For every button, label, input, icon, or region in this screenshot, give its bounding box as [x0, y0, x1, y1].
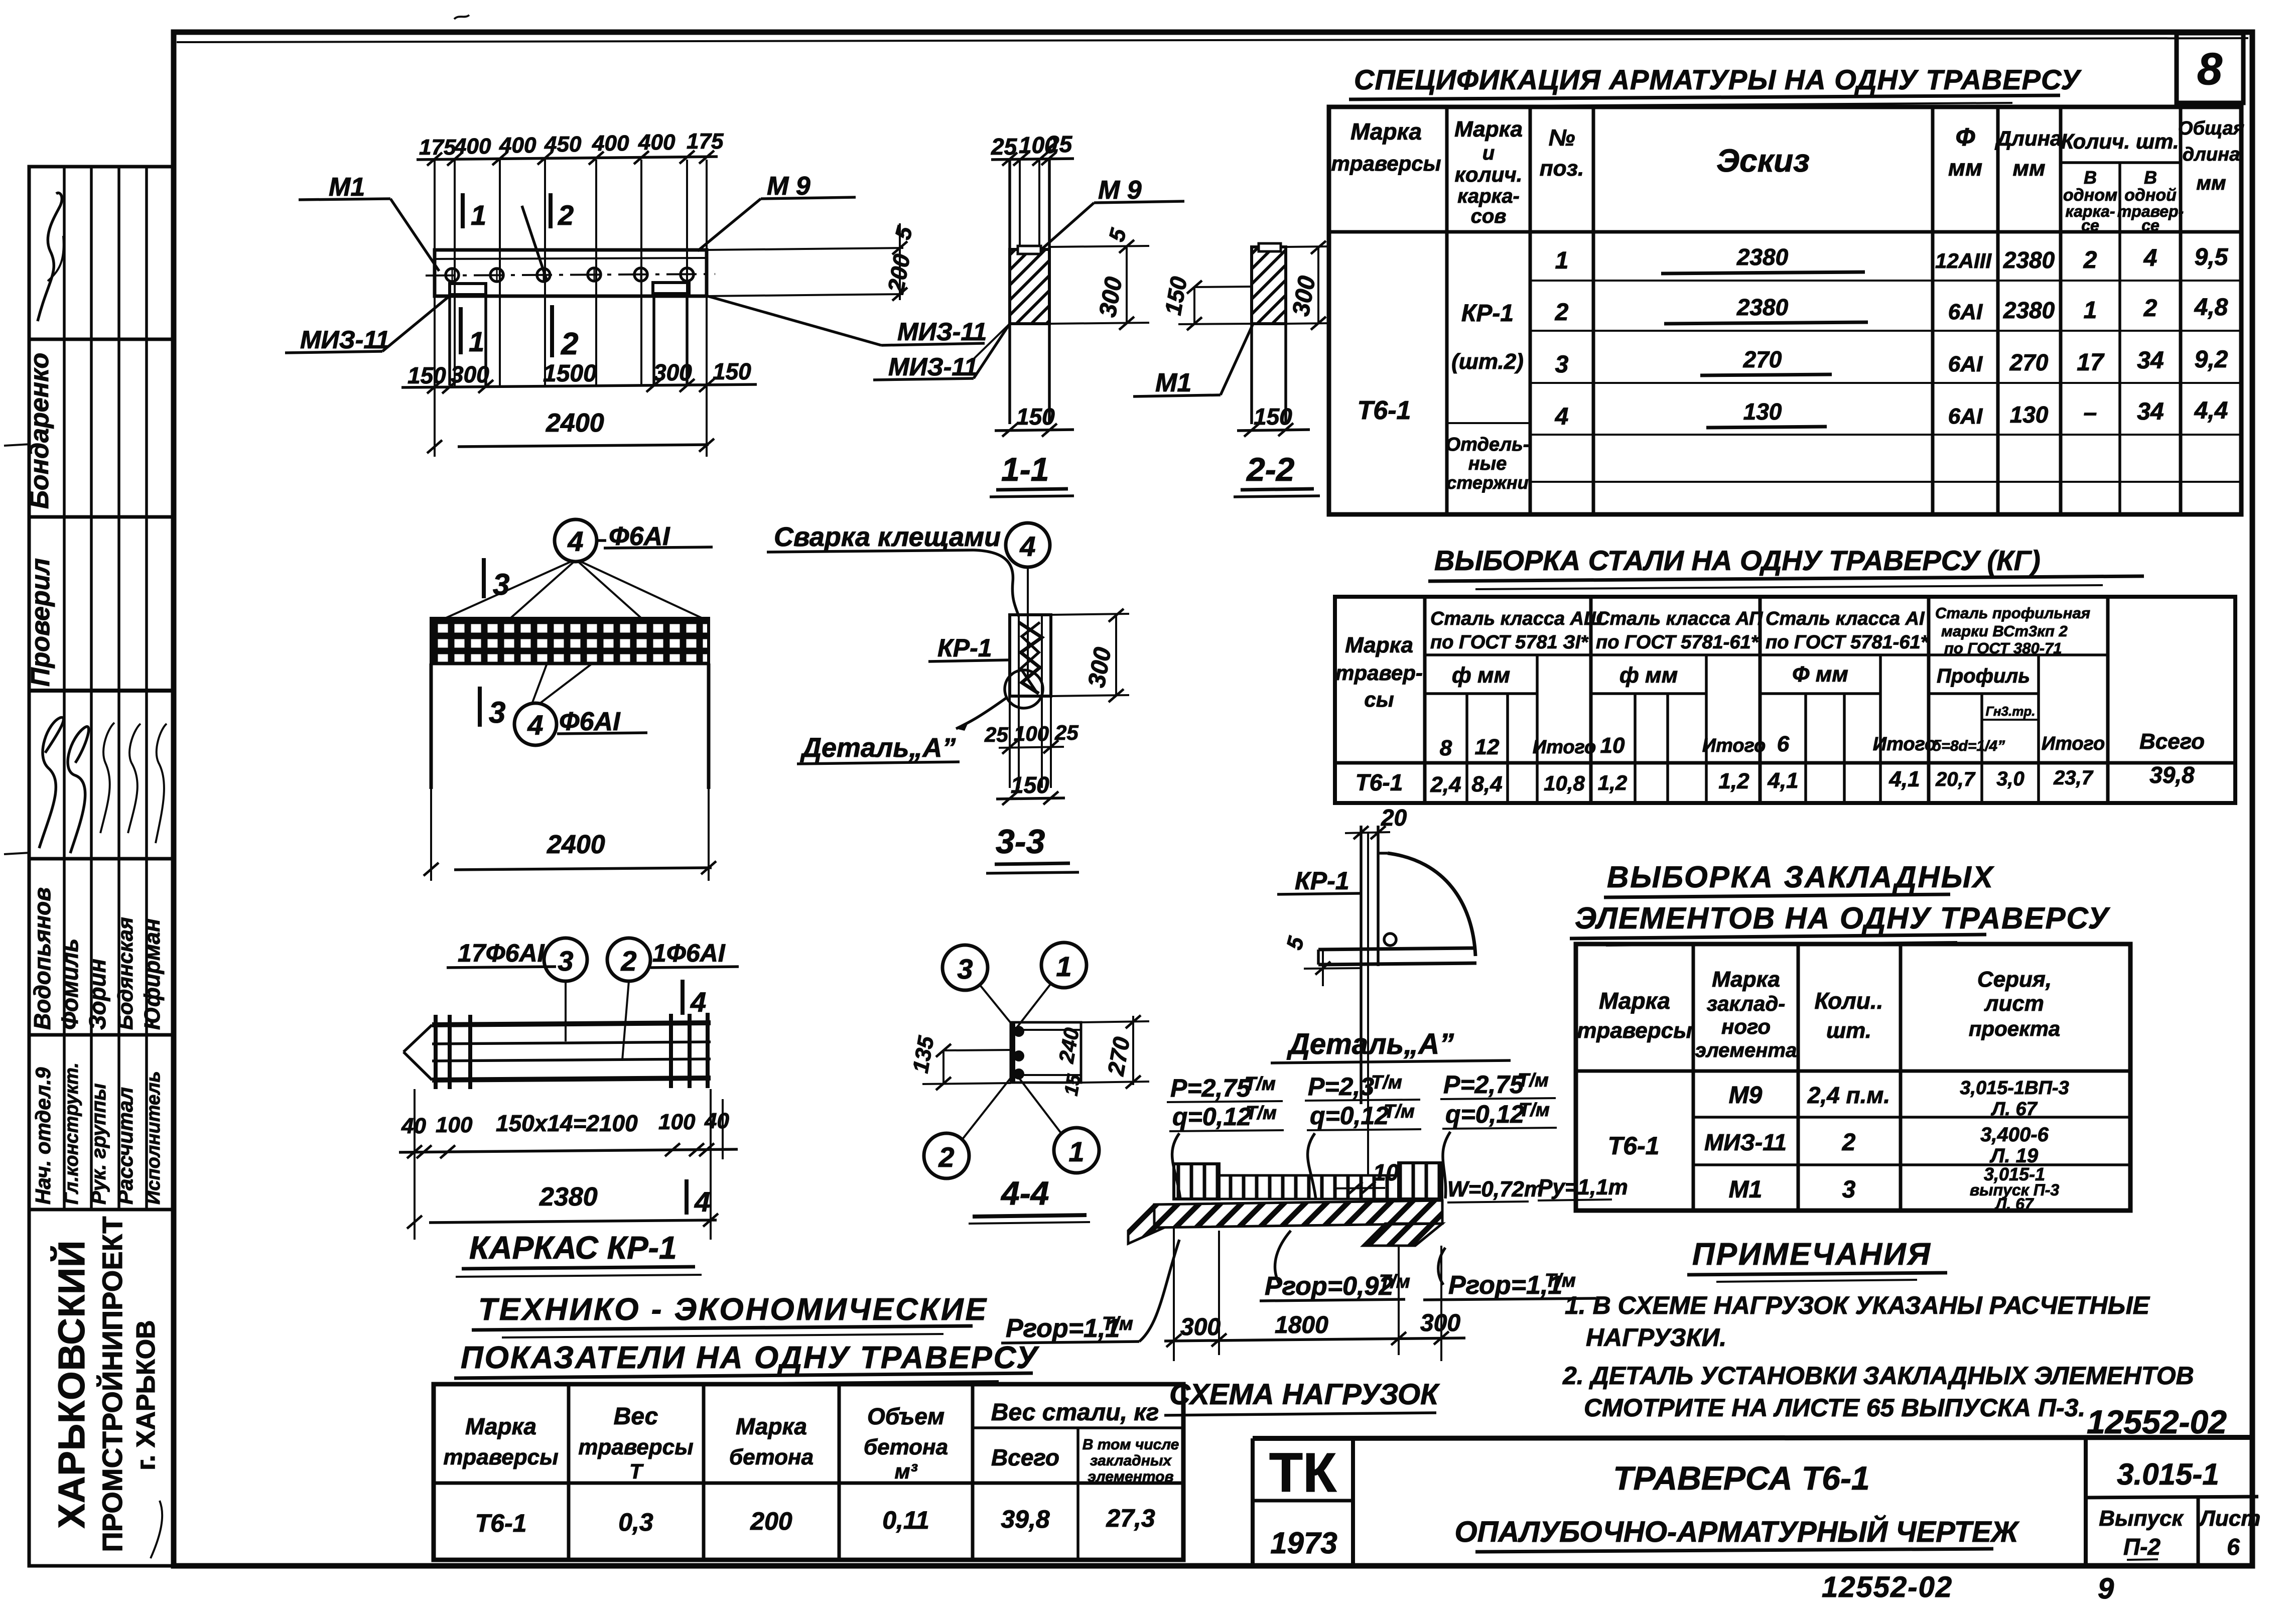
- svg-text:3: 3: [489, 696, 505, 729]
- svg-text:стержни: стержни: [1446, 472, 1528, 493]
- title block: [1253, 1437, 2260, 1566]
- svg-text:12552-02: 12552-02: [1822, 1571, 1953, 1602]
- svg-text:шт.: шт.: [1826, 1018, 1871, 1043]
- svg-text:27,3: 27,3: [1106, 1504, 1155, 1532]
- svg-text:М 9: М 9: [767, 172, 811, 201]
- svg-text:25: 25: [1046, 131, 1073, 157]
- svg-text:2: 2: [1555, 299, 1569, 326]
- svg-text:В: В: [2144, 167, 2157, 188]
- svg-text:8: 8: [1440, 736, 1452, 760]
- svg-text:9,2: 9,2: [2195, 346, 2228, 373]
- svg-text:1: 1: [469, 326, 484, 357]
- svg-text:100: 100: [658, 1110, 696, 1134]
- dim 270: [1082, 1021, 1149, 1022]
- svg-text:3: 3: [558, 945, 573, 977]
- svg-text:длина: длина: [2183, 144, 2240, 165]
- svg-text:q=0,12: q=0,12: [1310, 1102, 1389, 1130]
- svg-text:300: 300: [1420, 1310, 1460, 1336]
- svg-text:Отдель-: Отдель-: [1446, 434, 1530, 455]
- callout circle 3: [942, 945, 988, 990]
- svg-text:се: се: [2141, 216, 2159, 234]
- circle 2: [607, 938, 650, 981]
- svg-text:Гл.конструкт.: Гл.конструкт.: [61, 1062, 82, 1205]
- svg-text:2-2: 2-2: [1246, 451, 1295, 488]
- svg-text:П-2: П-2: [2123, 1534, 2160, 1560]
- svg-text:2400: 2400: [546, 409, 604, 438]
- svg-text:заклад-: заклад-: [1707, 992, 1786, 1015]
- svg-text:150: 150: [1254, 404, 1292, 430]
- middle distributed load: [1219, 1175, 1399, 1199]
- dim 300 right: [1286, 246, 1330, 247]
- hatched beam band: [1154, 1200, 1442, 1228]
- svg-text:25: 25: [984, 723, 1008, 746]
- embedded elements table: [1576, 944, 2130, 1213]
- svg-text:Т/м: Т/м: [1384, 1101, 1415, 1122]
- svg-text:по ГОСТ 5781 ЗІ*: по ГОСТ 5781 ЗІ*: [1430, 632, 1589, 653]
- svg-text:ТРАВЕРСА Т6-1: ТРАВЕРСА Т6-1: [1613, 1459, 1869, 1497]
- svg-text:КАРКАС КР-1: КАРКАС КР-1: [469, 1230, 677, 1266]
- svg-text:Нач. отдел.9: Нач. отдел.9: [31, 1067, 55, 1205]
- svg-text:4: 4: [1555, 404, 1569, 430]
- svg-text:Деталь„А”: Деталь„А”: [1286, 1028, 1454, 1060]
- svg-text:Л. 67: Л. 67: [1994, 1195, 2035, 1213]
- strip row lines: [29, 338, 173, 341]
- svg-text:Т/м: Т/м: [1102, 1313, 1133, 1334]
- circle leaders: [565, 981, 567, 1041]
- specification table title: [1349, 64, 2082, 106]
- svg-text:1: 1: [471, 199, 486, 231]
- svg-text:ЭЛЕМЕНТОВ НА ОДНУ ТРАВЕРСУ: ЭЛЕМЕНТОВ НА ОДНУ ТРАВЕРСУ: [1575, 901, 2111, 935]
- svg-text:Марка: Марка: [1454, 117, 1523, 142]
- svg-text:Т/м: Т/м: [1379, 1271, 1410, 1292]
- svg-text:0,3: 0,3: [618, 1508, 653, 1536]
- svg-text:Длина: Длина: [1995, 126, 2062, 150]
- svg-text:МИЗ-11: МИЗ-11: [300, 326, 389, 354]
- right cells: [2084, 1438, 2088, 1566]
- svg-text:39,8: 39,8: [1001, 1505, 1050, 1533]
- svg-text:Общая: Общая: [2178, 118, 2244, 139]
- svg-text:МИЗ-11: МИЗ-11: [897, 318, 987, 346]
- svg-text:10,8: 10,8: [1544, 771, 1585, 795]
- channel walls: [1008, 160, 1011, 424]
- svg-text:бетона: бетона: [729, 1445, 814, 1469]
- svg-text:4: 4: [527, 709, 543, 741]
- column lines: [1445, 107, 1449, 514]
- svg-text:Зорин: Зорин: [84, 959, 110, 1030]
- svg-text:34: 34: [2137, 347, 2164, 374]
- svg-text:М1: М1: [1155, 368, 1191, 397]
- svg-text:100: 100: [1014, 722, 1049, 745]
- svg-text:(шт.2): (шт.2): [1451, 349, 1524, 374]
- right load block: [1399, 1163, 1442, 1199]
- svg-text:3: 3: [1842, 1176, 1856, 1203]
- embedded plate marks on beam: [450, 284, 486, 295]
- svg-text:400: 400: [592, 131, 629, 156]
- section mark 2 bottom: [550, 305, 554, 357]
- svg-text:Т6-1: Т6-1: [1356, 769, 1403, 795]
- embedded elements table title: [1570, 860, 2111, 946]
- vertical plate: [1360, 826, 1363, 1104]
- svg-text:карка-: карка-: [1457, 185, 1520, 207]
- svg-text:100: 100: [436, 1113, 473, 1137]
- svg-text:400: 400: [638, 130, 676, 155]
- svg-text:г. ХАРЬКОВ: г. ХАРЬКОВ: [131, 1320, 161, 1470]
- section rectangle: [1011, 1022, 1081, 1083]
- svg-text:Л. 67: Л. 67: [1990, 1099, 2038, 1120]
- svg-text:150: 150: [1016, 404, 1055, 430]
- svg-text:ТЕХНИКО - ЭКОНОМИЧЕСКИЕ: ТЕХНИКО - ЭКОНОМИЧЕСКИЕ: [478, 1292, 988, 1327]
- extension lines down: [434, 251, 436, 457]
- svg-text:12АIII: 12АIII: [1935, 249, 1992, 273]
- svg-text:Водопьянов: Водопьянов: [29, 887, 55, 1030]
- svg-text:Вес стали, кг: Вес стали, кг: [991, 1399, 1159, 1426]
- plan view plates below: [448, 296, 451, 385]
- svg-text:2: 2: [558, 199, 574, 231]
- svg-text:300: 300: [451, 361, 489, 387]
- svg-text:1-1: 1-1: [1001, 451, 1049, 488]
- svg-text:1: 1: [1555, 247, 1569, 274]
- svg-text:проекта: проекта: [1969, 1017, 2060, 1040]
- svg-text:2: 2: [938, 1141, 954, 1173]
- svg-text:6АI: 6АI: [1948, 352, 1983, 376]
- svg-text:ВЫБОРКА СТАЛИ НА ОДНУ ТРАВ: ВЫБОРКА СТАЛИ НА ОДНУ ТРАВЕРСУ (КГ): [1434, 545, 2041, 576]
- svg-text:Профиль: Профиль: [1937, 665, 2030, 687]
- svg-text:1800: 1800: [1275, 1312, 1328, 1339]
- svg-text:Сталь профильная: Сталь профильная: [1935, 604, 2090, 622]
- svg-text:4: 4: [690, 986, 706, 1018]
- detail A circle: [1005, 670, 1043, 708]
- svg-text:Т6-1: Т6-1: [1358, 396, 1411, 425]
- mesh band: [431, 618, 709, 663]
- dim 300 right: [1051, 614, 1129, 615]
- svg-text:8,4: 8,4: [1471, 772, 1502, 796]
- svg-text:4-4: 4-4: [1000, 1174, 1049, 1212]
- svg-text:Рук. группы: Рук. группы: [88, 1084, 110, 1205]
- dim 2400 under mesh: [430, 789, 432, 881]
- beam rectangle: [435, 250, 707, 296]
- svg-text:270: 270: [1743, 346, 1782, 372]
- svg-text:мм: мм: [2012, 156, 2045, 181]
- TEP table title: [454, 1292, 1039, 1385]
- section 3-3 with svarka kleschami: [767, 522, 1129, 873]
- callout circle 1 top: [1041, 943, 1087, 988]
- svg-text:Юфирман: Юфирман: [140, 918, 165, 1030]
- svg-text:закладных: закладных: [1090, 1452, 1172, 1469]
- svg-text:150х14=2100: 150х14=2100: [496, 1110, 638, 1136]
- svg-text:сов: сов: [1471, 205, 1507, 227]
- svg-text:–: –: [2084, 399, 2097, 426]
- svg-text:Итого: Итого: [1533, 737, 1596, 758]
- svg-text:2380: 2380: [539, 1182, 598, 1212]
- body below mesh: [430, 663, 433, 789]
- header bands: [1425, 653, 2108, 656]
- svg-text:МИЗ-11: МИЗ-11: [888, 353, 978, 381]
- svg-text:q=0,12: q=0,12: [1445, 1100, 1524, 1128]
- svg-text:150: 150: [408, 362, 446, 388]
- svg-text:2. ДЕТАЛЬ УСТАНОВКИ ЗАКЛАДНЫ: 2. ДЕТАЛЬ УСТАНОВКИ ЗАКЛАДНЫХ ЭЛЕМЕНТОВ: [1562, 1362, 2194, 1390]
- svg-text:2400: 2400: [547, 830, 605, 859]
- steel selection table title: [1428, 545, 2144, 589]
- svg-text:ного: ного: [1721, 1015, 1771, 1038]
- svg-text:сы: сы: [1364, 688, 1394, 711]
- svg-text:МИЗ-11: МИЗ-11: [1704, 1129, 1787, 1155]
- leaders: [980, 985, 1015, 1028]
- svg-text:по ГОСТ 5781-61*: по ГОСТ 5781-61*: [1766, 632, 1929, 653]
- svg-text:2: 2: [1842, 1129, 1856, 1156]
- svg-text:Т/м: Т/м: [1245, 1074, 1276, 1095]
- row lines: [1530, 280, 2241, 282]
- svg-text:3,015-1ВП-3: 3,015-1ВП-3: [1960, 1078, 2069, 1099]
- svg-text:2380: 2380: [2003, 247, 2055, 273]
- circle 3: [544, 938, 587, 981]
- strip column lines: [63, 167, 66, 1210]
- svg-text:6АI: 6АI: [1948, 300, 1983, 324]
- svg-text:4,1: 4,1: [1767, 768, 1798, 793]
- specification table: [1329, 107, 2244, 514]
- svg-text:Коли..: Коли..: [1815, 988, 1883, 1014]
- svg-text:39,8: 39,8: [2149, 762, 2195, 788]
- svg-text:15: 15: [1061, 1073, 1086, 1098]
- svg-text:элемента: элемента: [1695, 1039, 1797, 1061]
- svg-text:Бодянская: Бодянская: [113, 917, 137, 1030]
- column outline: [1010, 615, 1051, 696]
- svg-text:лист: лист: [1984, 991, 2044, 1016]
- svg-text:Итого: Итого: [2042, 733, 2105, 754]
- svg-text:Марка: Марка: [1599, 988, 1670, 1014]
- svg-text:по ГОСТ 380-71: по ГОСТ 380-71: [1944, 639, 2062, 657]
- left point end: [403, 1025, 432, 1052]
- svg-text:0,11: 0,11: [882, 1506, 929, 1534]
- callout circle 1 bottom: [1054, 1128, 1099, 1173]
- svg-text:Рассчитал: Рассчитал: [113, 1087, 137, 1205]
- section 2-2: [1133, 241, 1330, 497]
- svg-text:Т/м: Т/м: [1518, 1070, 1549, 1091]
- svg-text:3: 3: [1555, 351, 1569, 378]
- callout circle 4 top: [555, 519, 597, 562]
- svg-text:Сталь класса АП: Сталь класса АП: [1596, 608, 1763, 629]
- svg-text:4,4: 4,4: [2194, 397, 2228, 424]
- detail A drawing: [1271, 805, 1511, 1195]
- svg-text:2380: 2380: [1736, 244, 1789, 270]
- svg-text:17: 17: [2077, 349, 2105, 376]
- svg-text:Т/м: Т/м: [1519, 1100, 1550, 1121]
- svg-text:2: 2: [2083, 247, 2097, 274]
- svg-text:В: В: [2084, 167, 2097, 188]
- svg-text:20,7: 20,7: [1935, 768, 1976, 790]
- svg-text:СПЕЦИФИКАЦИЯ АРМАТУРЫ НА ОД: СПЕЦИФИКАЦИЯ АРМАТУРЫ НА ОДНУ ТРАВЕРСУ: [1354, 64, 2082, 95]
- svg-text:по ГОСТ 5781-61*: по ГОСТ 5781-61*: [1596, 632, 1760, 653]
- svg-text:М1: М1: [1729, 1176, 1763, 1203]
- number below frame: [1822, 1571, 2114, 1605]
- svg-text:12552-02: 12552-02: [2087, 1403, 2227, 1440]
- svg-text:СХЕМА НАГРУЗОК: СХЕМА НАГРУЗОК: [1169, 1378, 1440, 1411]
- svg-text:НАГРУЗКИ.: НАГРУЗКИ.: [1586, 1323, 1726, 1352]
- svg-text:Марка: Марка: [1345, 633, 1413, 657]
- svg-text:мм: мм: [1948, 155, 1982, 181]
- svg-text:4: 4: [1019, 530, 1035, 562]
- svg-text:3,0: 3,0: [1996, 768, 2024, 790]
- svg-text:3,400-6: 3,400-6: [1980, 1124, 2049, 1146]
- svg-text:3-3: 3-3: [996, 823, 1045, 861]
- bolt circles: [446, 269, 459, 282]
- svg-text:q=0,12: q=0,12: [1172, 1103, 1251, 1131]
- svg-text:2,4: 2,4: [1430, 772, 1461, 797]
- svg-text:1: 1: [2084, 297, 2097, 324]
- svg-text:се: се: [2081, 216, 2099, 234]
- svg-text:траверсы: траверсы: [1577, 1018, 1692, 1043]
- label 3 bottom: [478, 687, 482, 727]
- svg-text:Лист: Лист: [2199, 1506, 2261, 1531]
- dim 150 left: [1194, 287, 1252, 287]
- left title strip: [25, 167, 173, 1566]
- callout circle 4: [1006, 523, 1050, 567]
- svg-text:W=0,72т: W=0,72т: [1447, 1177, 1544, 1201]
- svg-text:34: 34: [2137, 398, 2164, 425]
- svg-text:Марка: Марка: [736, 1413, 807, 1439]
- svg-text:мм: мм: [2196, 172, 2226, 194]
- svg-text:Ргор=0,92: Ргор=0,92: [1265, 1272, 1393, 1301]
- svg-text:Гн3.тр.: Гн3.тр.: [1986, 704, 2036, 719]
- svg-text:4,1: 4,1: [1888, 767, 1920, 791]
- svg-text:М9: М9: [1729, 1082, 1763, 1109]
- dim 5: [1049, 246, 1149, 247]
- svg-text:δ=8d=1/4”: δ=8d=1/4”: [1932, 738, 2005, 754]
- svg-text:1. В СХЕМЕ НАГРУЗОК УКАЗАНЫ: 1. В СХЕМЕ НАГРУЗОК УКАЗАНЫ РАСЧЕТНЫЕ: [1565, 1291, 2150, 1319]
- svg-text:270: 270: [2009, 349, 2049, 375]
- svg-text:Марка: Марка: [1350, 118, 1422, 145]
- svg-text:Т/м: Т/м: [1371, 1072, 1402, 1093]
- svg-text:9,5: 9,5: [2195, 244, 2229, 271]
- svg-text:Сварка клещами: Сварка клещами: [774, 522, 1001, 552]
- svg-text:ф мм: ф мм: [1452, 663, 1510, 688]
- quarter round body: [1388, 853, 1475, 956]
- svg-text:2380: 2380: [1736, 294, 1789, 320]
- svg-text:траверсы: траверсы: [578, 1435, 693, 1459]
- load scheme: [1001, 1070, 1628, 1415]
- svg-text:ПРОМСТРОЙНИПРОЕКТ: ПРОМСТРОЙНИПРОЕКТ: [96, 1217, 128, 1552]
- extension lines down: [1173, 1228, 1175, 1361]
- svg-text:Фомиль: Фомиль: [57, 939, 83, 1030]
- svg-text:ПОКАЗАТЕЛИ НА ОДНУ ТРАВЕРСУ: ПОКАЗАТЕЛИ НА ОДНУ ТРАВЕРСУ: [461, 1341, 1039, 1375]
- base shelf: [1318, 948, 1475, 950]
- svg-text:ные: ные: [1468, 453, 1507, 474]
- svg-text:8: 8: [2197, 44, 2222, 94]
- svg-text:СМОТРИТЕ НА ЛИСТЕ 65 ВЫПУСК: СМОТРИТЕ НА ЛИСТЕ 65 ВЫПУСКА П-3.: [1584, 1394, 2085, 1422]
- svg-text:колич.: колич.: [1455, 163, 1523, 186]
- svg-text:Р=2,75: Р=2,75: [1443, 1071, 1524, 1099]
- top dimension line: [417, 157, 718, 160]
- svg-text:2380: 2380: [2003, 297, 2055, 323]
- svg-text:элементов: элементов: [1088, 1468, 1173, 1485]
- svg-text:Т: Т: [629, 1459, 644, 1483]
- doc number above title block: [2087, 1403, 2227, 1440]
- svg-text:ВЫБОРКА ЗАКЛАДНЫХ: ВЫБОРКА ЗАКЛАДНЫХ: [1607, 860, 1995, 894]
- svg-text:4: 4: [567, 525, 583, 557]
- svg-text:Вес: Вес: [614, 1403, 658, 1430]
- svg-text:Итого: Итого: [1873, 734, 1936, 755]
- svg-text:6АI: 6АI: [1948, 404, 1983, 429]
- svg-text:2: 2: [2143, 295, 2157, 322]
- section mark 2 top: [549, 193, 553, 228]
- svg-text:2,4 п.м.: 2,4 п.м.: [1807, 1082, 1890, 1108]
- svg-text:200: 200: [750, 1507, 792, 1535]
- svg-text:Серия,: Серия,: [1977, 967, 2052, 992]
- svg-text:6: 6: [2227, 1534, 2240, 1560]
- svg-text:10: 10: [1600, 733, 1625, 758]
- svg-text:Всего: Всего: [991, 1444, 1059, 1470]
- svg-text:Сталь класса АI: Сталь класса АI: [1766, 608, 1925, 629]
- main verticals: [1423, 597, 1427, 803]
- svg-text:Ф мм: Ф мм: [1792, 662, 1848, 687]
- svg-text:2: 2: [561, 327, 578, 361]
- callout circle 2: [924, 1133, 969, 1178]
- label 3 top: [482, 558, 486, 598]
- svg-text:Итого: Итого: [1702, 735, 1766, 756]
- svg-text:4,8: 4,8: [2194, 294, 2228, 321]
- karkas KR-1 drawing: [399, 938, 739, 1277]
- svg-text:175: 175: [687, 129, 724, 154]
- strip signatures row: [39, 717, 64, 848]
- svg-text:1: 1: [1068, 1136, 1084, 1167]
- stirrups: [434, 1015, 438, 1089]
- svg-text:23,7: 23,7: [2053, 767, 2094, 789]
- svg-text:6: 6: [1777, 732, 1790, 756]
- svg-text:Р=2,75: Р=2,75: [1170, 1074, 1251, 1102]
- svg-text:м³: м³: [894, 1459, 917, 1483]
- svg-text:Выпуск: Выпуск: [2099, 1506, 2184, 1531]
- svg-text:150: 150: [713, 358, 751, 384]
- svg-text:и: и: [1482, 142, 1495, 164]
- svg-text:3.015-1: 3.015-1: [2117, 1457, 2219, 1491]
- notes: [1562, 1237, 2194, 1422]
- section mark 1 bottom: [459, 307, 463, 354]
- header lines: [2061, 161, 2181, 164]
- svg-text:130: 130: [1743, 398, 1782, 425]
- TEP table: [434, 1384, 1183, 1560]
- svg-text:40: 40: [704, 1109, 729, 1133]
- beam elevation drawing: [285, 129, 987, 457]
- svg-text:Т6-1: Т6-1: [1608, 1132, 1660, 1160]
- svg-text:Объем: Объем: [867, 1403, 944, 1429]
- callout circle 4 bottom: [514, 703, 557, 745]
- concrete hatched block: [1010, 249, 1049, 324]
- svg-text:КР-1: КР-1: [937, 634, 992, 662]
- section 1-1: [873, 131, 1184, 497]
- mesh (grid) drawing: [424, 519, 716, 881]
- svg-text:3: 3: [957, 953, 973, 985]
- svg-text:Колич. шт.: Колич. шт.: [2061, 129, 2179, 153]
- section mark 1 top: [461, 193, 465, 228]
- svg-text:бетона: бетона: [864, 1435, 948, 1459]
- svg-text:М1: М1: [329, 173, 365, 202]
- inner scribble reinforcement: [1019, 622, 1042, 694]
- svg-text:В том числе: В том числе: [1083, 1436, 1179, 1453]
- svg-text:Исполнитель: Исполнитель: [143, 1071, 164, 1205]
- leader curls: [1172, 1133, 1180, 1199]
- svg-text:Марка: Марка: [1712, 967, 1780, 992]
- label 4 top: [681, 980, 685, 1015]
- svg-text:Деталь„А”: Деталь„А”: [800, 733, 956, 763]
- svg-text:Р=2,3: Р=2,3: [1308, 1073, 1374, 1101]
- svg-text:Ф: Ф: [1955, 123, 1975, 151]
- svg-text:Ру=1,1т: Ру=1,1т: [1538, 1175, 1628, 1199]
- svg-text:траверсы: траверсы: [1331, 152, 1441, 175]
- svg-text:Проверил: Проверил: [26, 558, 55, 687]
- label 4 bottom: [685, 1179, 689, 1215]
- svg-text:Бондаренко: Бондаренко: [25, 353, 54, 509]
- svg-text:ф мм: ф мм: [1619, 663, 1678, 688]
- bars: [432, 1023, 711, 1025]
